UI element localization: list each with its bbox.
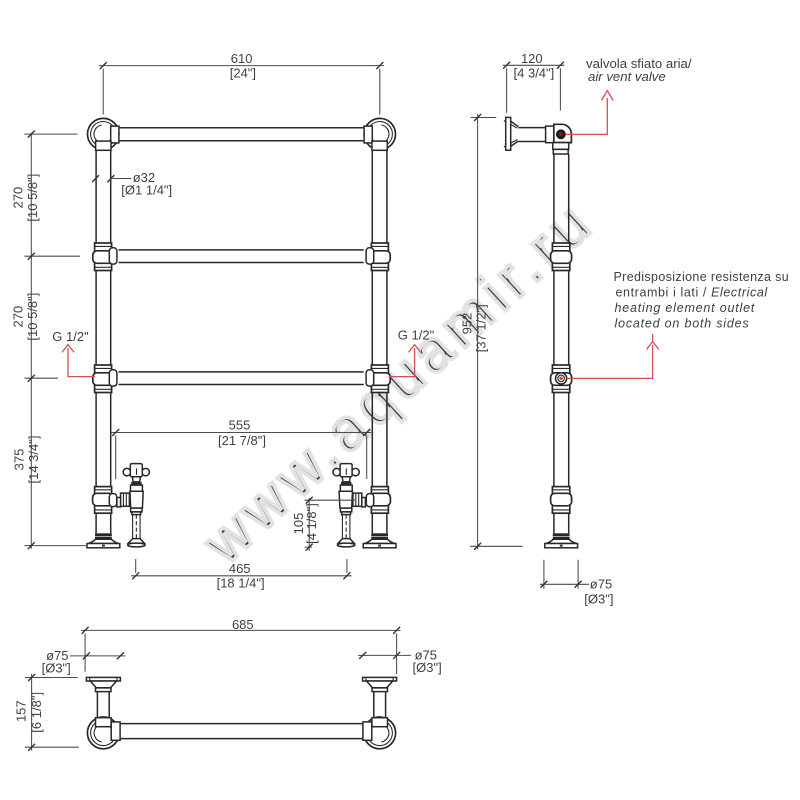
svg-text:[Ø3"]: [Ø3"] (413, 660, 442, 675)
left ball lower nut (96, 141, 111, 150)
dim 157 (13, 674, 78, 751)
top bar left sleeve (111, 126, 119, 143)
side collar at bar2 (551, 243, 572, 271)
bottom-left ball elbow (87, 717, 119, 749)
heating element label (614, 270, 790, 331)
right radiator valve (333, 464, 365, 547)
dim 555 (111, 418, 371, 480)
dim 105 (291, 497, 355, 551)
svg-text:685: 685 (232, 617, 254, 632)
svg-text:[Ø3"]: [Ø3"] (584, 591, 613, 606)
svg-text:555: 555 (229, 418, 251, 433)
T-fitting bar3 left (93, 365, 117, 393)
top bar right sleeve (364, 126, 372, 143)
svg-text:270: 270 (11, 187, 26, 209)
svg-text:located on both sides: located on both sides (615, 317, 750, 331)
top-left ball elbow joint (88, 118, 119, 149)
middle towel bar 2 tube (119, 250, 364, 263)
svg-text:[Ø3"]: [Ø3"] (42, 660, 71, 675)
side post tube (554, 154, 569, 533)
right post tube (372, 150, 387, 533)
svg-text:heating element outlet: heating element outlet (615, 301, 756, 315)
svg-text:G 1/2": G 1/2" (52, 329, 89, 344)
left radiator valve (117, 464, 150, 547)
svg-text:[6 1/8"]: [6 1/8"] (29, 692, 44, 733)
bottom collar fitting right post (366, 487, 390, 514)
left stem upper nut (96, 718, 112, 727)
middle towel bar 3 tube (119, 372, 364, 385)
top towel bar tube (119, 128, 364, 141)
svg-text:[4 3/4"]: [4 3/4"] (514, 65, 555, 80)
svg-text:[4 1/8"]: [4 1/8"] (304, 503, 319, 544)
svg-text:465: 465 (229, 561, 251, 576)
svg-text:375: 375 (11, 449, 26, 471)
top-right ball elbow joint (364, 118, 395, 149)
svg-text:610: 610 (231, 51, 253, 66)
air vent valve arrow (566, 91, 613, 135)
left stem band (96, 688, 112, 692)
svg-text:157: 157 (13, 700, 28, 722)
right stem band (372, 688, 388, 692)
svg-text:[37 1/2"]: [37 1/2"] (473, 304, 488, 352)
right ball lower nut (372, 141, 387, 150)
dim 610 top (99, 51, 384, 114)
side foot (545, 533, 578, 548)
G 1/2 arrow right (389, 328, 435, 377)
wall arm sleeve (546, 126, 554, 143)
dim ø32 post diameter (92, 170, 172, 198)
T-fitting bar2 left (93, 243, 117, 271)
T-fitting bar3 right (366, 365, 390, 393)
left foot plate (86, 677, 120, 687)
svg-text:G 1/2": G 1/2" (398, 328, 435, 343)
dim 465 (131, 559, 352, 591)
wall flange (504, 117, 518, 150)
right post foot (363, 533, 396, 548)
svg-text:270: 270 (11, 306, 26, 328)
svg-text:Predisposizione resistenza su: Predisposizione resistenza su (614, 270, 790, 284)
dim bottom-right ø75 (358, 647, 442, 675)
right foot plate (363, 677, 397, 687)
side bottom collar (551, 487, 572, 514)
svg-text:[18 1/4"]: [18 1/4"] (217, 576, 265, 591)
bottom bar right sleeve (363, 722, 372, 740)
svg-text:[24"]: [24"] (230, 66, 256, 81)
bottom bar left sleeve (111, 722, 120, 740)
watermark www.aquamir.ru (191, 188, 607, 577)
svg-text:[14 3/4"]: [14 3/4"] (26, 436, 41, 484)
dim bottom-left ø75 (42, 648, 126, 676)
svg-text:[10 5/8"]: [10 5/8"] (25, 293, 40, 341)
air vent valve label (586, 56, 692, 84)
svg-text:entrambi i lati / Electrical: entrambi i lati / Electrical (616, 286, 769, 300)
svg-text:120: 120 (521, 51, 543, 66)
T-fitting bar2 right (366, 243, 390, 271)
bottom-right ball elbow (364, 717, 396, 749)
bottom collar fitting left post (93, 487, 117, 514)
dim side ø75 (540, 560, 613, 607)
G 1/2 arrow left (52, 329, 95, 376)
heating element arrow (567, 334, 659, 378)
top elbow (553, 124, 572, 154)
svg-text:[21 7/8"]: [21 7/8"] (218, 433, 266, 448)
svg-text:air vent valve: air vent valve (588, 69, 666, 84)
svg-text:[Ø1 1/4"]: [Ø1 1/4"] (121, 182, 172, 197)
dim 952 (460, 114, 523, 550)
svg-text:ø75: ø75 (590, 576, 612, 591)
right stem upper nut (372, 718, 388, 727)
left post tube (96, 150, 111, 533)
left stem tube (97, 692, 109, 718)
wall arm tube (518, 128, 545, 142)
dim 120 (503, 51, 565, 113)
dim 685 (81, 617, 401, 674)
left post foot (87, 533, 120, 548)
bottom bar tube (120, 724, 363, 739)
side collar at bar3 with element outlet (551, 365, 572, 393)
svg-text:[10 5/8"]: [10 5/8"] (25, 174, 40, 222)
right stem tube (374, 692, 386, 718)
left dimension chain (11, 131, 86, 549)
